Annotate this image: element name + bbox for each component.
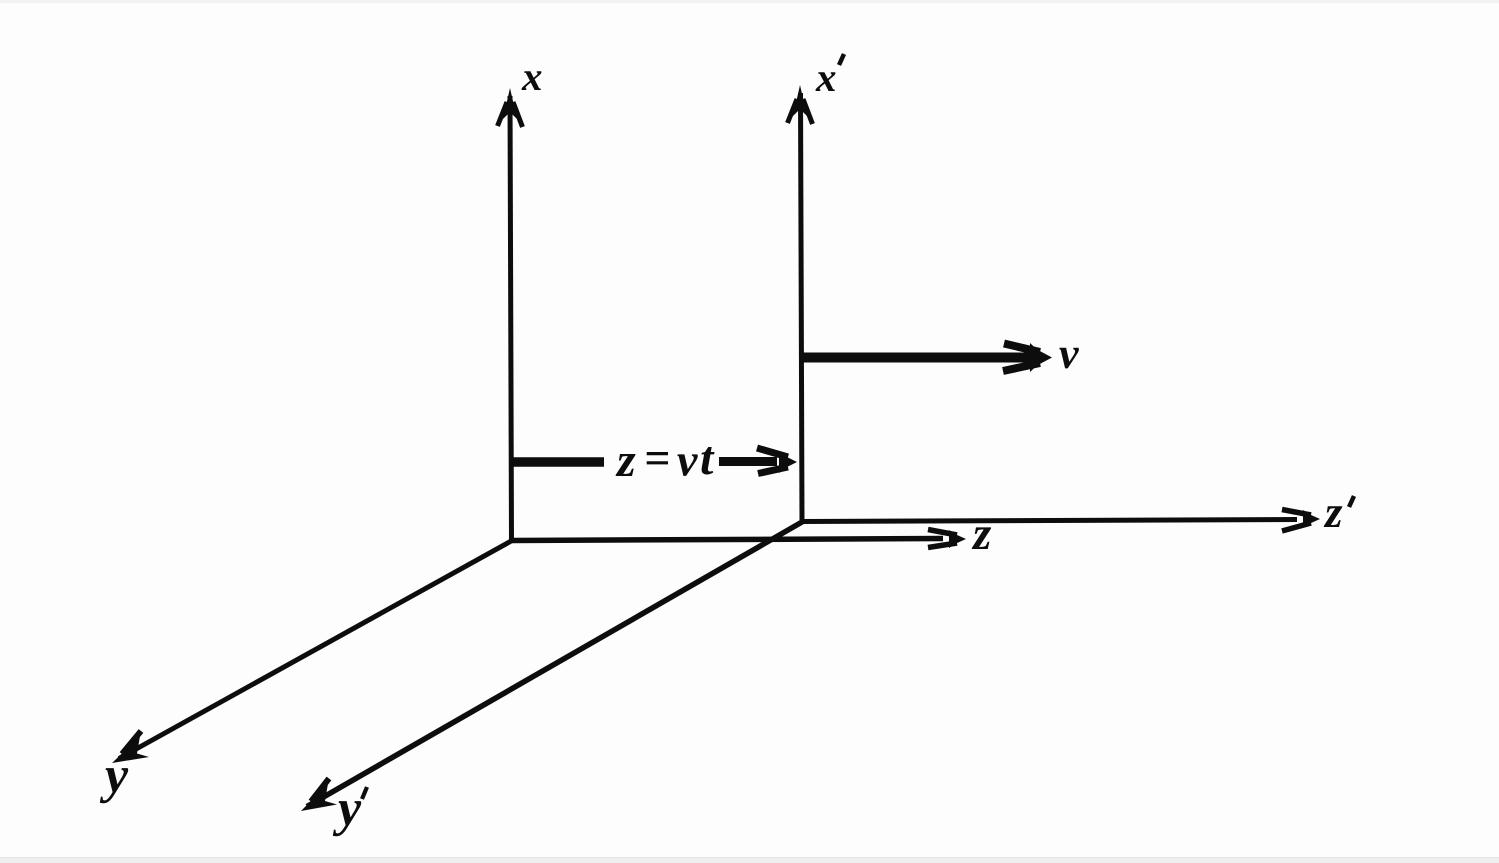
arrowhead z-axis (right) xyxy=(928,530,966,549)
arrowhead y-axis (down-left) xyxy=(112,731,149,763)
label y xyxy=(100,768,128,803)
arrowhead z-prime-axis (right) xyxy=(1282,510,1320,532)
arrowhead v (right, large) xyxy=(1003,343,1052,372)
wire z-prime-axis shaft xyxy=(802,520,1297,522)
wire y-prime-axis shaft xyxy=(307,522,802,807)
wire x-prime-axis shaft xyxy=(801,93,803,522)
wire z-axis shaft xyxy=(512,539,943,541)
top scan edge xyxy=(0,0,1499,3)
arrowhead x-axis (up) xyxy=(498,88,523,127)
bottom scan band xyxy=(0,857,1499,863)
label z-prime xyxy=(1324,506,1343,527)
label v xyxy=(1059,348,1079,369)
wire z=vt right segment xyxy=(719,457,777,466)
wire x-axis shaft xyxy=(510,96,512,542)
label z (axis) xyxy=(972,527,991,549)
wire y-axis shaft xyxy=(119,540,513,759)
label x xyxy=(522,71,542,90)
wire v-arrow shaft xyxy=(803,353,1032,363)
label y-prime xyxy=(333,801,361,836)
wire z=vt left segment xyxy=(512,457,604,467)
arrowhead y-prime-axis (down-left) xyxy=(301,779,337,812)
label x-prime xyxy=(816,72,836,91)
arrowhead z=vt (right) xyxy=(757,448,797,474)
label z = vt xyxy=(616,454,636,476)
arrowhead x-prime-axis (up) xyxy=(788,85,813,124)
